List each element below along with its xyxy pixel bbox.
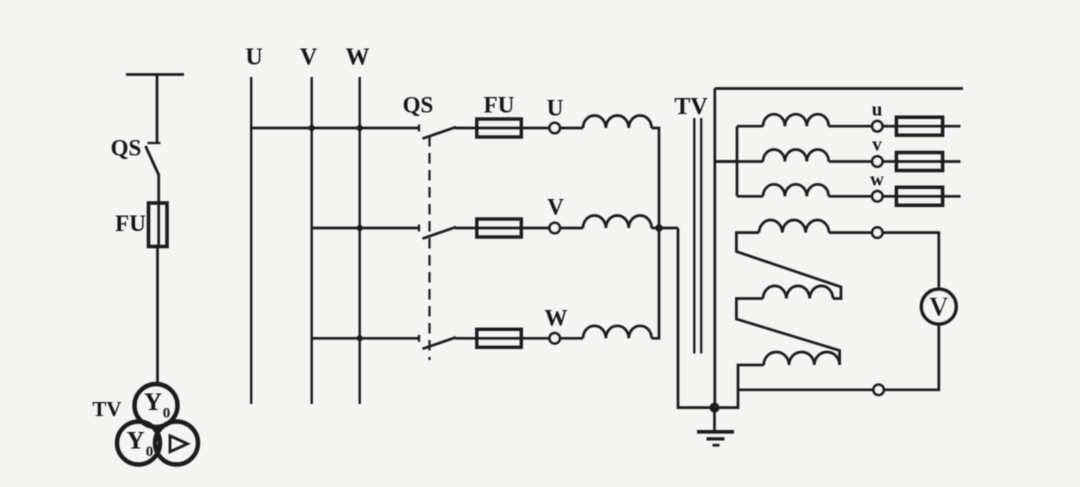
wire riser to secondary star bus — [715, 160, 737, 163]
transformer TV (left) bottom-left winding circle — [117, 422, 160, 465]
wire QS to fuse, phase W — [455, 337, 478, 340]
wire winding A left end down and diagonal to winding B — [736, 233, 841, 299]
secondary winding w — [763, 184, 829, 196]
fuse phase v body — [896, 153, 942, 171]
wire fuse u output — [943, 125, 961, 128]
wire terminal b to voltmeter — [884, 324, 939, 390]
fuse FU phase U wire through — [478, 127, 521, 130]
wire fuse to transformer TV — [156, 245, 159, 386]
svg-text:U: U — [245, 45, 262, 71]
junction dot tap V crosses busbar W — [357, 225, 363, 231]
QS mechanical linkage (dashed) — [428, 136, 430, 360]
secondary winding v — [763, 149, 829, 161]
fuse FU (left) wire through — [157, 203, 160, 245]
fuse FU (left) body — [149, 203, 168, 247]
secondary winding u — [763, 114, 829, 126]
disconnector QS (left) blade — [146, 146, 160, 176]
fuse FU phase W body — [477, 329, 522, 347]
wire QS to fuse FU — [157, 174, 160, 203]
disconnector QS phase V fixed contact — [418, 225, 420, 232]
wire fuse w output — [943, 195, 961, 198]
wire winding u to terminal u — [829, 125, 872, 128]
wire terminal w to fuse — [883, 195, 897, 198]
primary winding phase V — [583, 215, 652, 228]
open-delta terminal b (open circle) — [873, 385, 883, 395]
fuse FU phase U body — [477, 119, 522, 137]
junction dot tap U crosses busbar W — [357, 125, 363, 131]
secondary star bus — [736, 126, 739, 196]
fuse FU phase V body — [477, 219, 522, 237]
svg-text:u: u — [872, 100, 883, 121]
fuse phase v wire through — [896, 160, 942, 163]
disconnector QS phase W blade — [423, 337, 457, 349]
svg-text:V: V — [300, 45, 318, 71]
wire from busbar to QS — [156, 75, 159, 144]
svg-text:FU: FU — [115, 211, 146, 236]
busbar U — [250, 77, 252, 404]
svg-text:QS: QS — [111, 136, 142, 161]
busbar W — [359, 77, 361, 404]
fuse phase w body — [896, 187, 942, 205]
wire winding B left end down and diagonal to winding C — [736, 299, 839, 366]
voltmeter PV circle — [921, 289, 956, 324]
wire terminal a to voltmeter — [883, 233, 939, 290]
terminal u (open circle) — [872, 121, 882, 131]
wire winding w to terminal w — [829, 195, 872, 198]
wire winding v to terminal v — [829, 160, 872, 163]
fuse phase u body — [896, 117, 942, 135]
terminal v (open circle) — [872, 156, 882, 166]
primary winding phase W — [583, 326, 652, 339]
open-delta winding C — [764, 352, 840, 365]
svg-text:V: V — [547, 195, 564, 220]
svg-text:v: v — [872, 135, 882, 156]
wire fuse v output — [943, 160, 961, 163]
busbar (left diagram top bar) — [126, 73, 184, 76]
wire winding V to neutral drop — [652, 227, 678, 230]
wire terminal W to primary winding — [560, 337, 583, 340]
disconnector QS (left) fixed contact tick — [148, 142, 161, 144]
transformer TV core bar left — [693, 118, 695, 354]
terminal w (open circle) — [872, 191, 882, 201]
open-delta triangle mark inside bottom-right circle — [170, 436, 188, 452]
wire winding W up to star point — [652, 228, 659, 338]
wire tap V phase — [312, 227, 419, 230]
svg-text:W: W — [545, 306, 568, 331]
terminal U (open circle) — [550, 123, 560, 133]
disconnector QS phase U fixed contact — [418, 125, 420, 132]
wire star bus to winding v — [715, 160, 763, 163]
wire terminal v to fuse — [883, 160, 897, 163]
wire winding U to star point — [652, 128, 659, 228]
svg-text:V: V — [929, 292, 949, 322]
fuse phase u wire through — [896, 125, 942, 128]
wire tap U phase — [251, 127, 419, 130]
wire tap W phase — [312, 337, 419, 340]
disconnector QS phase V blade — [423, 227, 457, 239]
transformer TV (left) bottom-right winding circle — [155, 422, 198, 465]
wire fuse to terminal W — [521, 337, 550, 340]
svg-text:0: 0 — [146, 444, 154, 460]
primary neutral wire down — [678, 228, 715, 408]
junction dot tap W at busbar W — [357, 335, 363, 341]
wire fuse to terminal U — [521, 127, 550, 130]
wire terminal V to primary winding — [560, 227, 583, 230]
svg-text:TV: TV — [674, 94, 708, 120]
wire terminal u to fuse — [883, 125, 897, 128]
wire star bus to winding u — [737, 125, 763, 128]
open-delta bottom wire to terminal b — [738, 388, 873, 391]
earth ground bar 1 — [697, 430, 734, 434]
wire star bus to winding w — [737, 195, 763, 198]
earth ground stem — [713, 408, 716, 431]
open-delta terminal a (open circle) — [872, 227, 882, 237]
primary winding phase U — [583, 115, 652, 128]
transformer TV (left) top winding circle — [135, 384, 178, 427]
svg-text:Y: Y — [126, 428, 144, 455]
fuse FU phase V wire through — [478, 227, 521, 230]
open-delta winding A — [759, 220, 829, 233]
wire terminal U to primary winding — [560, 127, 583, 130]
svg-text:0: 0 — [163, 406, 171, 422]
svg-text:Y: Y — [144, 389, 162, 416]
junction dot ground node — [710, 403, 720, 413]
open-delta winding B — [763, 286, 833, 299]
junction dot tap U crosses busbar V — [309, 125, 315, 131]
terminal W (open circle) — [550, 333, 560, 343]
svg-text:FU: FU — [484, 93, 515, 118]
wire QS to fuse, phase V — [455, 227, 478, 230]
svg-text:TV: TV — [92, 397, 121, 421]
terminal V (open circle) — [550, 223, 560, 233]
transformer TV core bar right — [700, 118, 702, 354]
wire QS to fuse, phase U — [455, 127, 478, 130]
earth ground bar 3 — [713, 444, 720, 447]
svg-text:QS: QS — [403, 93, 434, 118]
svg-text:w: w — [870, 170, 884, 191]
wire fuse to terminal V — [521, 227, 550, 230]
svg-text:U: U — [547, 96, 564, 121]
svg-text:W: W — [346, 45, 370, 71]
fuse phase w wire through — [896, 195, 942, 198]
busbar V — [311, 77, 313, 404]
junction dot primary star point — [655, 224, 663, 232]
secondary neutral top bus wire — [715, 87, 963, 90]
disconnector QS phase U blade — [423, 127, 457, 139]
secondary star point riser (long vertical to ground) — [713, 89, 716, 408]
disconnector QS phase W fixed contact — [418, 335, 420, 342]
earth ground bar 2 — [707, 437, 725, 440]
fuse FU phase W wire through — [478, 337, 521, 340]
wire winding C left end down to ground node — [715, 365, 764, 408]
wire winding A to open-delta terminal a — [829, 231, 872, 234]
